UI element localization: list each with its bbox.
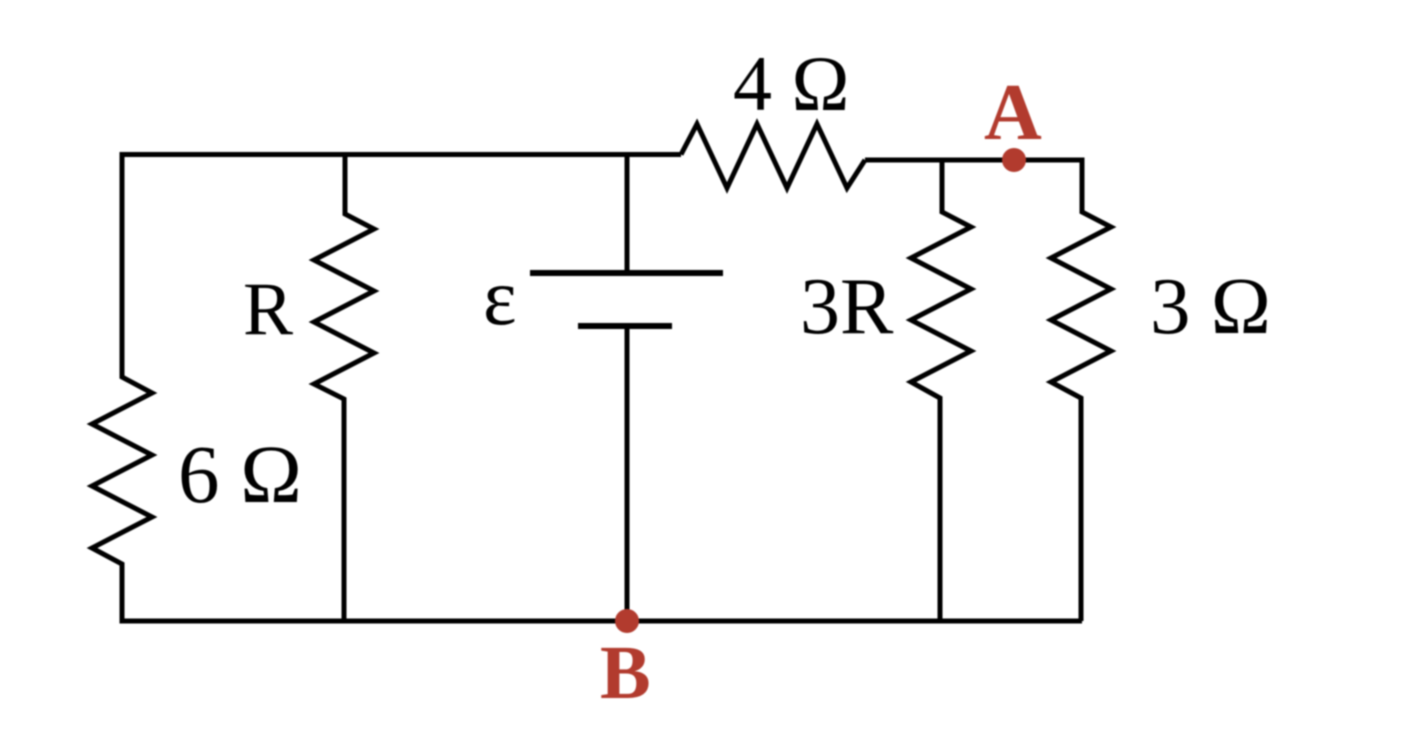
- svg-text:4 Ω: 4 Ω: [733, 40, 849, 127]
- svg-text:3R: 3R: [800, 263, 894, 351]
- svg-text:3 Ω: 3 Ω: [1150, 261, 1271, 351]
- svg-text:ε: ε: [483, 254, 517, 342]
- svg-text:6 Ω: 6 Ω: [178, 428, 302, 520]
- svg-text:R: R: [243, 268, 293, 351]
- svg-text:A: A: [984, 69, 1042, 157]
- svg-text:B: B: [600, 631, 651, 715]
